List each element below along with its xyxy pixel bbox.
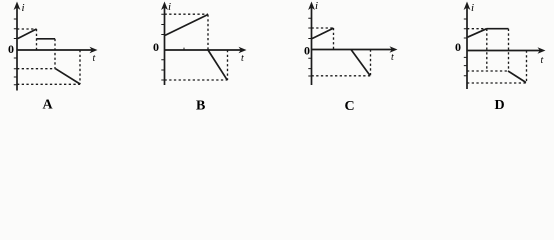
dashed bottom negative level guide graph B bbox=[165, 79, 228, 81]
dashed vertical at ramp peak graph D bbox=[486, 29, 488, 71]
solid ramp segment graph A bbox=[18, 29, 37, 39]
t-axis arrowhead graph D bbox=[538, 47, 546, 54]
dashed vertical return-to-zero graph B bbox=[227, 50, 229, 80]
dashed bottom negative level guide graph C bbox=[312, 75, 371, 77]
dashed vertical step-to-negative graph A bbox=[54, 39, 56, 69]
dashed mid negative level guide graph D bbox=[467, 70, 508, 72]
svg-text:t: t bbox=[93, 53, 96, 64]
dashed peak level guide graph A bbox=[17, 28, 37, 30]
y-axis ticks graph C bbox=[308, 18, 311, 76]
y-axis arrowhead graph C bbox=[308, 2, 315, 11]
t-axis arrowhead graph A bbox=[90, 47, 98, 54]
dashed peak level guide graph C bbox=[312, 27, 334, 29]
four current-vs-time graphs A B C D bbox=[0, 0, 554, 116]
dashed peak level guide graph D bbox=[467, 28, 487, 30]
solid rising ramp graph D bbox=[468, 29, 487, 38]
svg-text:t: t bbox=[241, 53, 244, 64]
y-axis (i) graph C bbox=[311, 6, 313, 85]
dashed vertical at peak drop graph A bbox=[36, 29, 38, 50]
solid rising ramp graph B bbox=[165, 15, 208, 36]
svg-text:0: 0 bbox=[153, 40, 159, 54]
y-axis arrowhead graph A bbox=[14, 2, 21, 11]
solid negative ramp graph B bbox=[208, 50, 227, 80]
t-axis arrowhead graph B bbox=[239, 47, 247, 54]
y-axis ticks graph B bbox=[161, 14, 164, 80]
t-axis graph B bbox=[165, 49, 242, 51]
svg-text:i: i bbox=[471, 2, 474, 14]
dashed vertical return-to-zero graph D bbox=[526, 51, 528, 84]
t-axis graph D bbox=[467, 50, 540, 52]
dashed mid negative level guide graph A bbox=[17, 68, 56, 70]
dashed vertical at peak drop graph B bbox=[207, 15, 209, 51]
t-axis graph C bbox=[312, 49, 393, 51]
svg-text:0: 0 bbox=[304, 44, 310, 58]
y-axis (i) graph D bbox=[466, 6, 468, 89]
svg-text:t: t bbox=[391, 52, 394, 63]
svg-text:i: i bbox=[22, 2, 25, 14]
y-axis ticks graph A bbox=[14, 19, 17, 85]
y-axis (i) graph B bbox=[164, 6, 166, 85]
svg-text:i: i bbox=[168, 1, 171, 13]
svg-text:0: 0 bbox=[455, 40, 461, 54]
dashed bottom negative level guide graph A bbox=[17, 83, 80, 85]
t-axis graph A bbox=[17, 49, 93, 51]
svg-text:A: A bbox=[43, 98, 54, 113]
dashed peak level guide graph B bbox=[165, 13, 209, 15]
dashed vertical at peak drop graph C bbox=[333, 28, 335, 50]
y-axis arrowhead graph B bbox=[161, 2, 168, 11]
svg-text:B: B bbox=[196, 99, 205, 114]
svg-text:t: t bbox=[541, 55, 544, 66]
solid rising ramp graph C bbox=[312, 28, 334, 38]
dashed bottom negative level guide graph D bbox=[467, 82, 526, 84]
solid plateau graph D bbox=[487, 28, 509, 30]
t-axis arrowhead graph C bbox=[390, 46, 398, 53]
svg-text:C: C bbox=[345, 99, 355, 114]
y-axis (i) graph A bbox=[16, 6, 18, 91]
y-axis arrowhead graph D bbox=[464, 2, 471, 11]
solid negative ramp graph C bbox=[351, 50, 370, 76]
dashed vertical at plateau end graph D bbox=[508, 29, 510, 71]
solid negative ramp graph A bbox=[56, 69, 81, 84]
solid negative ramp graph D bbox=[508, 71, 526, 83]
t-axis small tick graph B bbox=[183, 48, 185, 50]
svg-text:D: D bbox=[495, 98, 505, 113]
solid step segment graph A bbox=[37, 38, 56, 40]
dashed vertical return-to-zero graph C bbox=[370, 50, 372, 76]
svg-text:0: 0 bbox=[8, 42, 14, 56]
y-axis ticks graph D bbox=[464, 19, 467, 76]
dashed vertical return-to-zero graph A bbox=[79, 50, 81, 84]
svg-text:i: i bbox=[315, 0, 318, 12]
